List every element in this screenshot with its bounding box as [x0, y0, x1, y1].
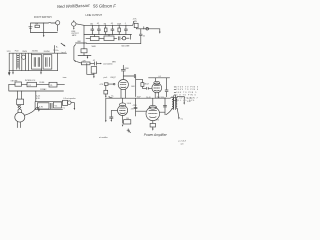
- label see p2: [62, 51, 67, 54]
- label 270: [131, 108, 134, 110]
- label page: [178, 141, 187, 146]
- wire power rails: [9, 53, 66, 70]
- capacitor C4: [124, 25, 127, 35]
- arrow on bus: [108, 95, 113, 98]
- resistor R15 label: [133, 105, 138, 107]
- wire footswitch loop: [31, 22, 58, 32]
- svg-text:w/ rectifier: w/ rectifier: [99, 136, 108, 139]
- svg-text:FUSE: FUSE: [40, 82, 46, 84]
- jack J3 line: [122, 37, 125, 40]
- jack J1 footswitch: [56, 21, 60, 31]
- jack J2 line output: [72, 20, 76, 29]
- svg-text:NFB: NFB: [112, 62, 116, 64]
- label speaker: [187, 98, 193, 103]
- wire 600 left: [76, 42, 87, 44]
- svg-text:150: 150: [126, 118, 129, 120]
- ground power 2: [12, 71, 14, 75]
- jack J5: [146, 28, 149, 31]
- arrow to pot: [61, 43, 66, 46]
- svg-text:FLD: FLD: [15, 51, 19, 53]
- footnote mark: [127, 129, 130, 133]
- wire power right vertical: [57, 53, 59, 70]
- wire jack gnd: [71, 103, 74, 109]
- plate resistor V1: [121, 65, 129, 79]
- wire vert mid: [28, 53, 30, 70]
- capacitor C9 strip: [51, 103, 52, 109]
- svg-text:6SQ7: 6SQ7: [144, 84, 150, 86]
- foot switch label: [34, 16, 52, 19]
- transformer T1 winding: [17, 54, 19, 69]
- cord with arrow: [25, 107, 40, 115]
- resistor R6: [134, 23, 138, 27]
- svg-text:8 o: 8 o: [63, 108, 65, 110]
- svg-text:3.2 VC: 3.2 VC: [187, 98, 193, 100]
- capacitor can C7: [32, 53, 42, 70]
- svg-text:500K: 500K: [92, 46, 97, 48]
- svg-text:450V 6V6: 450V 6V6: [157, 97, 164, 99]
- label socket: [104, 77, 108, 79]
- svg-text:INTERLOCK: INTERLOCK: [25, 80, 36, 82]
- capacitor C12: [110, 117, 113, 122]
- label see bulletin: [103, 62, 113, 65]
- svg-text:20uF: 20uF: [137, 97, 141, 99]
- wire V3 grid: [111, 110, 117, 116]
- wire bus2: [84, 34, 132, 36]
- cathode chain V1: [104, 85, 108, 98]
- wire mains bottom: [9, 84, 64, 91]
- label tone: [63, 76, 67, 79]
- capacitor C13: [147, 87, 152, 89]
- label 100K vertical: [131, 86, 136, 88]
- svg-text:Ned Wolf/Bassart: Ned Wolf/Bassart: [57, 3, 91, 9]
- svg-text:6.3V: 6.3V: [36, 98, 40, 100]
- label 20uF bus: [137, 97, 141, 99]
- svg-text:FOOT SWITCH: FOOT SWITCH: [34, 16, 52, 19]
- wire bus left vertical: [83, 25, 85, 44]
- labels on bus: [146, 97, 164, 99]
- svg-text:470K: 470K: [133, 105, 138, 107]
- label power amplifier: [144, 133, 168, 137]
- resistor R8 strip: [37, 103, 49, 109]
- V2 feed branch: [136, 79, 146, 88]
- capacitor C2: [97, 25, 100, 35]
- svg-text:220K: 220K: [125, 68, 130, 70]
- resistor R2: [118, 25, 121, 35]
- value labels bus: [90, 23, 126, 25]
- capacitor C10: [93, 60, 97, 65]
- wire V2 feed vertical: [135, 76, 137, 97]
- wire V4 right: [160, 98, 165, 115]
- svg-text:56 Gibson F: 56 Gibson F: [93, 4, 116, 9]
- svg-text:p.1 of 2: p.1 of 2: [178, 141, 187, 143]
- resistor R3 pot: [90, 37, 99, 41]
- svg-text:B+: B+: [56, 46, 58, 48]
- ground grid leak: [93, 74, 95, 78]
- svg-text:270V TO PIN 3: 270V TO PIN 3: [176, 87, 199, 89]
- svg-text:5Y3: 5Y3: [7, 51, 11, 53]
- svg-text:0.1: 0.1: [159, 76, 162, 78]
- svg-text:270: 270: [156, 120, 159, 122]
- label 8ohm strip: [63, 108, 65, 110]
- speaker label: [63, 97, 76, 100]
- wire 600 row3: [87, 43, 141, 45]
- wire B+ bus bottom: [106, 97, 170, 99]
- svg-text:tone: tone: [63, 76, 67, 79]
- svg-text:Power Amplifier: Power Amplifier: [144, 133, 168, 137]
- svg-text:100K: 100K: [131, 86, 136, 88]
- svg-text:5W: 5W: [134, 21, 137, 23]
- wire mains top: [9, 83, 65, 85]
- wire R6 to jack line: [136, 27, 159, 30]
- filament labels: [36, 95, 40, 99]
- svg-text:6.3 ext speaker: 6.3 ext speaker: [63, 97, 76, 100]
- label 8 ohm: [178, 117, 183, 120]
- resistor R16 cathode: [150, 120, 159, 127]
- svg-text:6.3V: 6.3V: [39, 106, 44, 108]
- wire pot row: [86, 37, 129, 39]
- tube V3: [118, 98, 128, 115]
- speaker arrow: [183, 97, 185, 105]
- svg-text:VC: VC: [55, 106, 58, 108]
- wire pot feed vertical: [74, 45, 77, 62]
- svg-text:PL: PL: [50, 85, 52, 87]
- svg-text:20+20: 20+20: [146, 97, 151, 99]
- wire arrow to p2: [159, 29, 161, 34]
- svg-text:over: over: [181, 143, 185, 145]
- vertical links bus2 row: [95, 35, 131, 40]
- capacitor C15 bars: [134, 107, 137, 108]
- resistor R10: [81, 60, 90, 64]
- ground V4: [152, 127, 154, 131]
- capacitor C14: [165, 90, 168, 91]
- label 600: [78, 41, 81, 43]
- interlock box: [17, 99, 24, 105]
- battery B1: [29, 27, 32, 29]
- capacitor C3: [111, 25, 114, 35]
- wire coupling: [123, 75, 134, 77]
- capacitor can C8: [43, 55, 52, 69]
- resistor R5 divider: [78, 44, 91, 56]
- wire V2 right vertical: [166, 78, 168, 97]
- svg-text:4.7K: 4.7K: [100, 84, 104, 86]
- svg-text:350V: 350V: [22, 51, 27, 53]
- resistor R11: [91, 67, 97, 75]
- svg-text:6SQ7: 6SQ7: [111, 77, 117, 79]
- wire bus1: [76, 21, 134, 26]
- capacitor C11 coupling: [134, 74, 135, 78]
- voltage chart: [176, 87, 199, 103]
- svg-text:20/450: 20/450: [44, 51, 51, 53]
- wire V3 cathode: [122, 116, 124, 124]
- label V3: [127, 103, 131, 105]
- label 600 line: [122, 45, 131, 47]
- svg-text:.1: .1: [125, 23, 127, 25]
- line output jack label: [71, 31, 79, 37]
- wire V2 plate line: [149, 76, 170, 78]
- svg-text:600: 600: [78, 41, 81, 43]
- resistor R4: [104, 36, 114, 41]
- resistor R12 grid stop: [104, 83, 115, 86]
- svg-text:20/450: 20/450: [32, 51, 39, 53]
- label 6SQ7 V1: [111, 77, 117, 79]
- tube V4: [146, 98, 160, 123]
- jack box J4b: [63, 100, 68, 105]
- fuse F1: [27, 82, 37, 87]
- svg-text:pin 6: pin 6: [104, 77, 108, 79]
- ground V3: [122, 125, 124, 127]
- label NFB: [112, 62, 116, 64]
- label 4.7K chain: [133, 19, 137, 23]
- jack J4 speaker: [68, 101, 72, 105]
- svg-text:.02: .02: [93, 60, 96, 62]
- ground divider: [87, 56, 89, 59]
- wire filament drop: [35, 91, 37, 102]
- wire V3 grid drop: [105, 98, 107, 122]
- rectifier V5: [22, 53, 26, 70]
- wire B+ riser: [55, 46, 59, 54]
- mains labels: [11, 80, 48, 91]
- label 4.7K grid: [100, 84, 104, 86]
- lamp P1: [49, 82, 57, 87]
- svg-text:90V TO PIN 5: 90V TO PIN 5: [176, 92, 197, 94]
- resistor R9 strip: [54, 102, 62, 108]
- wire V4 left: [136, 98, 147, 116]
- wire power left vertical: [8, 53, 10, 70]
- label 500K: [92, 46, 97, 48]
- svg-text:LINE OUTPUT: LINE OUTPUT: [86, 14, 103, 17]
- svg-text:F1: F1: [29, 85, 31, 87]
- chart ticks: [174, 87, 176, 101]
- svg-text:600 LINE: 600 LINE: [122, 45, 131, 47]
- svg-text:.05: .05: [110, 23, 113, 25]
- resistor R14: [124, 118, 131, 124]
- svg-text:270: 270: [131, 108, 134, 110]
- svg-text:250V TO PIN 4: 250V TO PIN 4: [176, 89, 199, 91]
- capacitor C5 row: [119, 37, 120, 40]
- switch S2: [15, 82, 22, 86]
- svg-text:JACK: JACK: [72, 34, 77, 37]
- wire to amp with arrow: [43, 22, 45, 37]
- plug PL1: [15, 110, 25, 128]
- svg-text:B+: B+: [112, 95, 114, 97]
- grid leak loop: [87, 63, 94, 74]
- tube V2: [152, 78, 162, 98]
- capacitor C6 hang: [139, 29, 145, 44]
- ground power left: [8, 71, 10, 75]
- svg-text:.02: .02: [143, 36, 145, 38]
- transformer T2: [166, 96, 184, 118]
- wire drops to plug: [18, 91, 22, 99]
- svg-text:to p.2: to p.2: [62, 51, 67, 54]
- label 6SQ7 V2: [144, 84, 150, 86]
- title handwritten: [57, 3, 116, 17]
- resistor R1: [104, 25, 107, 35]
- capacitor C1: [91, 25, 94, 35]
- power labels: [7, 50, 60, 53]
- cord twist: [18, 105, 21, 109]
- ground power mid: [40, 71, 42, 75]
- ground speaker: [74, 108, 76, 110]
- capacitor C16 bars: [163, 106, 166, 107]
- wire power vertical 2: [12, 53, 14, 70]
- wire grid line: [77, 62, 102, 65]
- svg-text:50L6: 50L6: [127, 103, 131, 105]
- switch S1: [35, 24, 39, 28]
- wire strip rails: [35, 102, 62, 110]
- tube V1: [118, 80, 128, 98]
- svg-text:8 o: 8 o: [181, 118, 183, 120]
- label preamp note: [99, 136, 108, 139]
- svg-text:SW: SW: [35, 24, 38, 26]
- svg-text:.02: .02: [97, 23, 100, 25]
